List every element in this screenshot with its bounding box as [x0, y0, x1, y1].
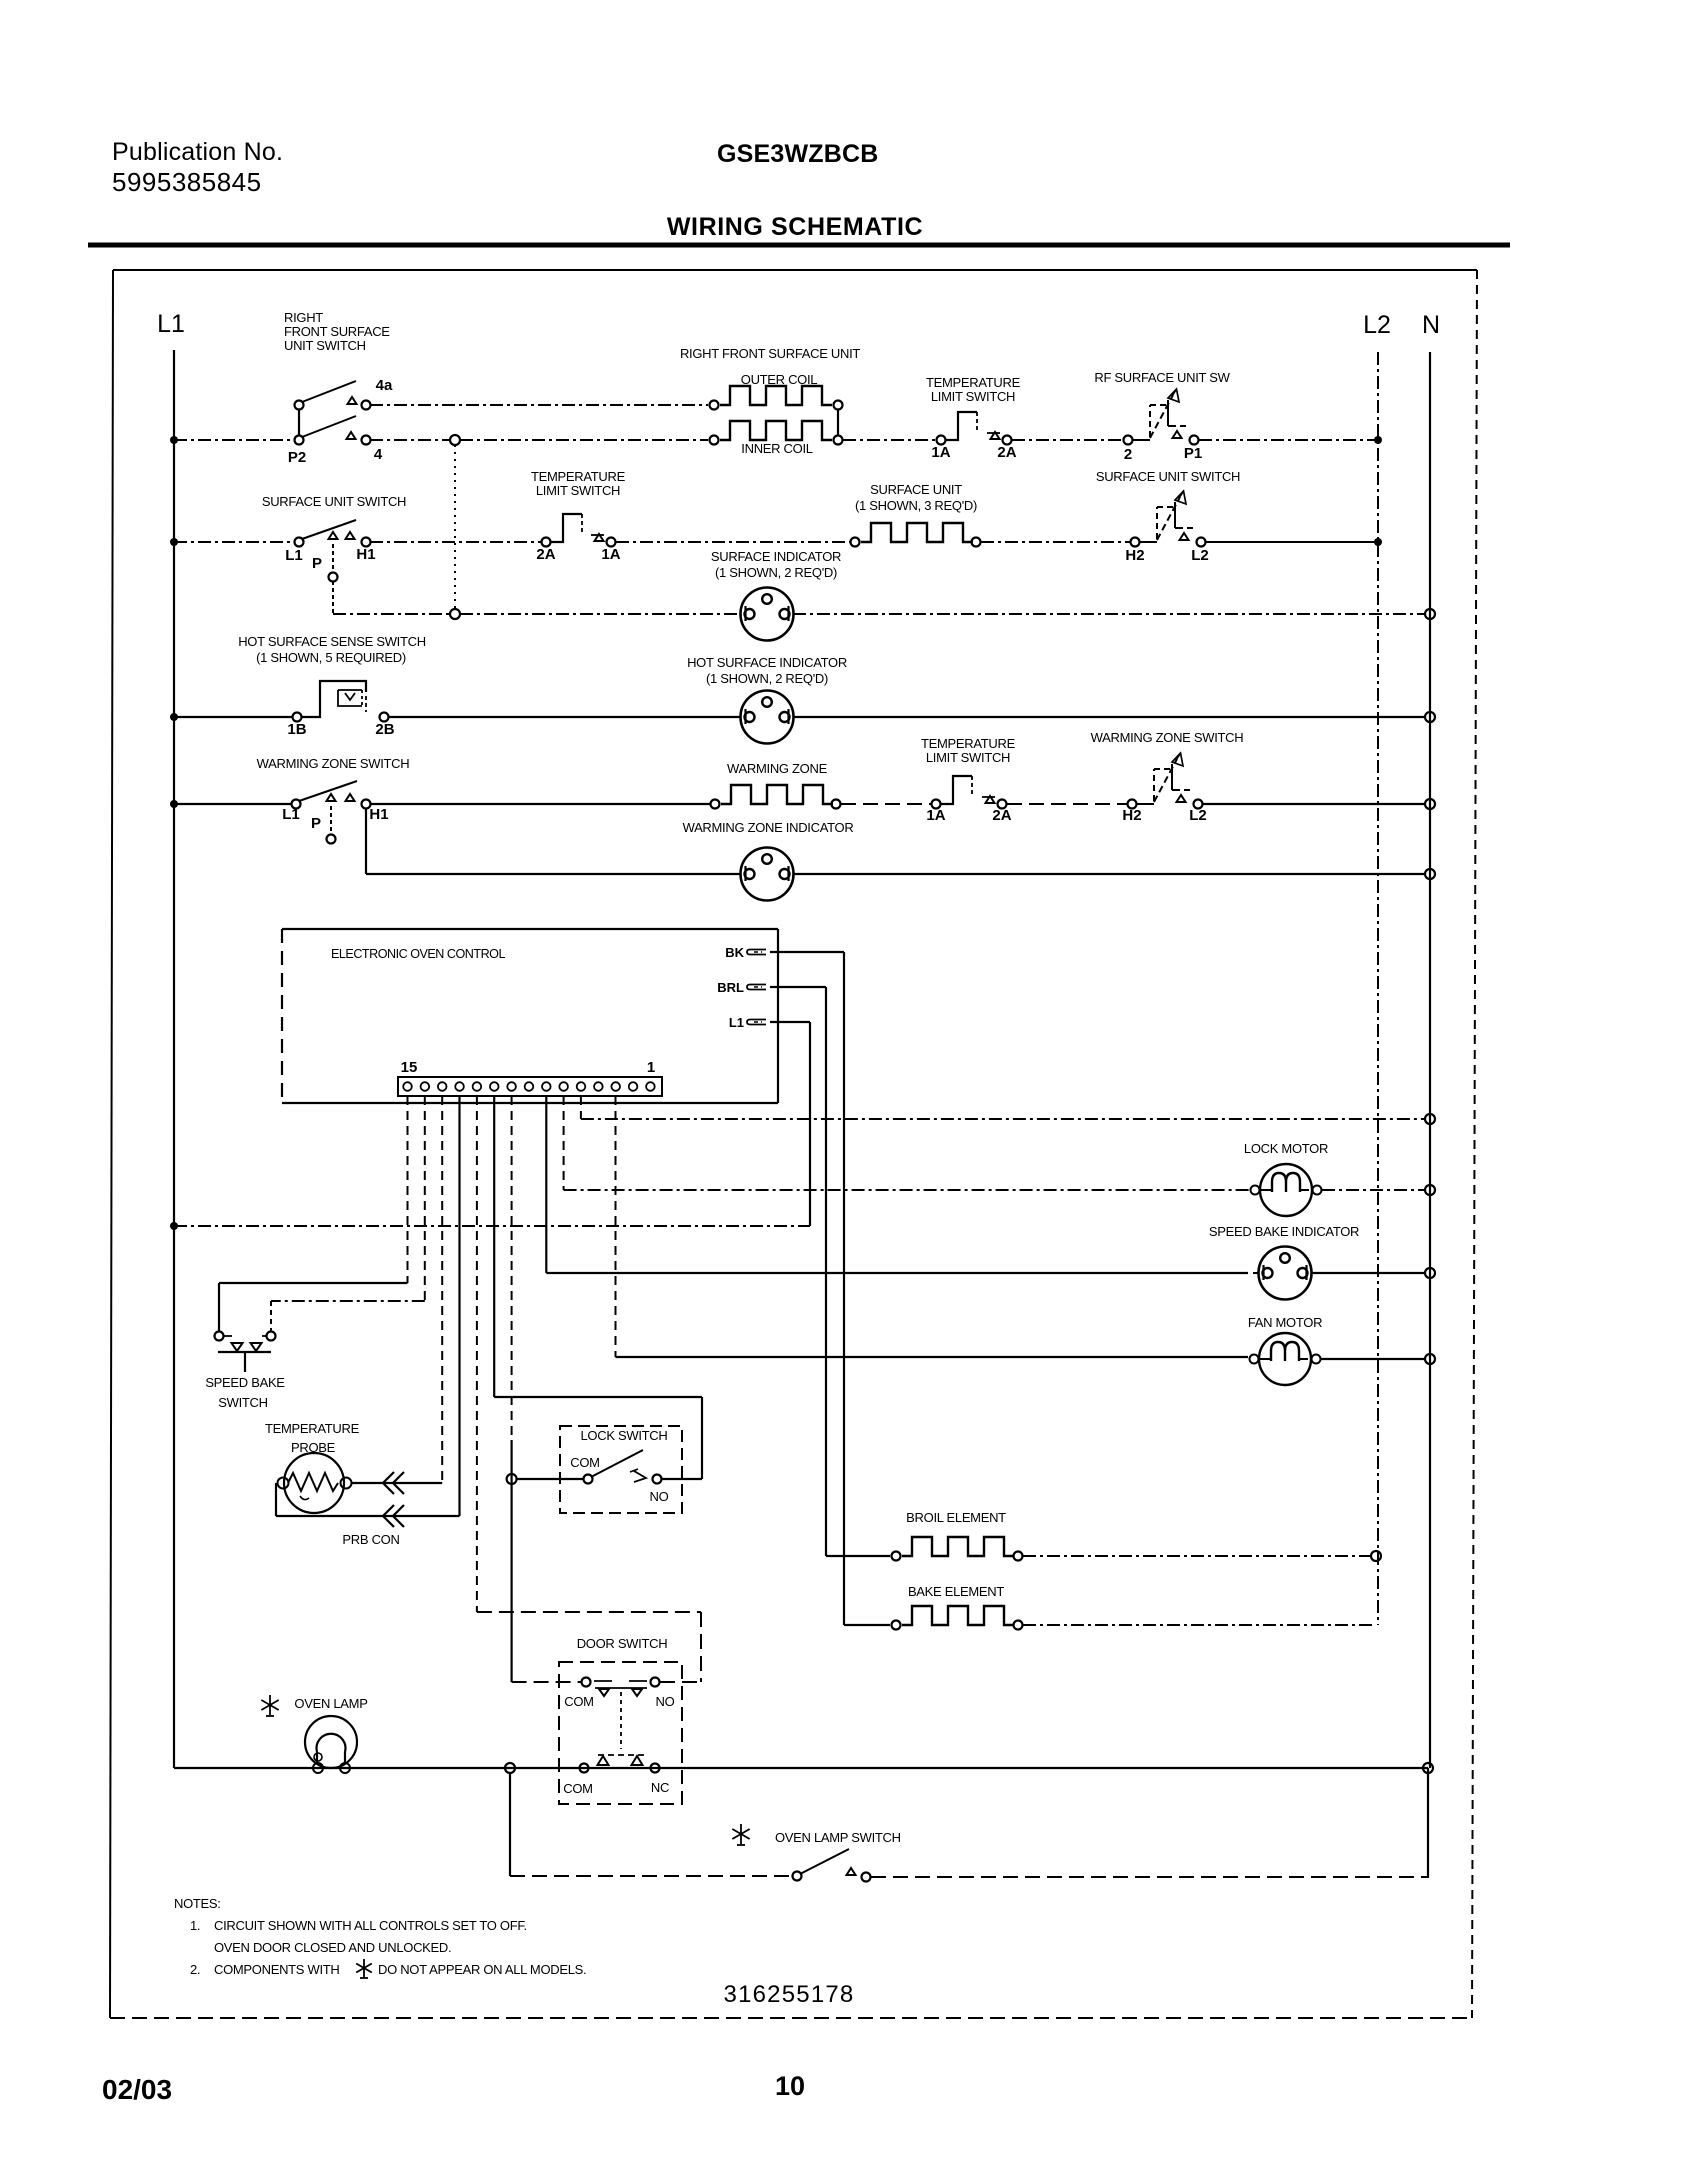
svg-text:RIGHT: RIGHT	[284, 310, 323, 325]
svg-text:H1: H1	[369, 806, 388, 823]
svg-text:PRB CON: PRB CON	[342, 1532, 399, 1547]
svg-text:1A: 1A	[931, 444, 950, 461]
svg-text:P1: P1	[1184, 445, 1202, 462]
svg-text:RF SURFACE UNIT SW: RF SURFACE UNIT SW	[1094, 370, 1230, 385]
svg-text:SURFACE UNIT SWITCH: SURFACE UNIT SWITCH	[1096, 469, 1240, 484]
svg-text:SWITCH: SWITCH	[218, 1395, 267, 1410]
svg-text:WARMING ZONE: WARMING ZONE	[727, 761, 828, 776]
svg-text:(1 SHOWN, 3 REQ'D): (1 SHOWN, 3 REQ'D)	[855, 498, 977, 513]
svg-text:LIMIT SWITCH: LIMIT SWITCH	[536, 483, 620, 498]
svg-text:WARMING ZONE SWITCH: WARMING ZONE SWITCH	[1091, 730, 1244, 745]
svg-text:OVEN DOOR CLOSED AND UNLOCKED.: OVEN DOOR CLOSED AND UNLOCKED.	[214, 1940, 451, 1955]
svg-text:HOT SURFACE INDICATOR: HOT SURFACE INDICATOR	[687, 655, 847, 670]
svg-text:OVEN LAMP: OVEN LAMP	[294, 1696, 367, 1711]
svg-text:1.: 1.	[190, 1918, 200, 1933]
svg-text:L1: L1	[729, 1015, 744, 1030]
svg-text:SURFACE UNIT SWITCH: SURFACE UNIT SWITCH	[262, 494, 406, 509]
svg-text:RIGHT FRONT SURFACE UNIT: RIGHT FRONT SURFACE UNIT	[680, 346, 860, 361]
svg-text:COMPONENTS WITH: COMPONENTS WITH	[214, 1962, 340, 1977]
svg-text:LIMIT SWITCH: LIMIT SWITCH	[931, 389, 1015, 404]
svg-text:DO NOT APPEAR ON ALL MODELS.: DO NOT APPEAR ON ALL MODELS.	[378, 1962, 586, 1977]
svg-text:10: 10	[775, 2071, 805, 2101]
svg-text:TEMPERATURE: TEMPERATURE	[926, 375, 1021, 390]
svg-text:UNIT SWITCH: UNIT SWITCH	[284, 338, 366, 353]
svg-text:2A: 2A	[536, 546, 555, 563]
svg-text:SURFACE UNIT: SURFACE UNIT	[870, 482, 962, 497]
svg-text:H2: H2	[1122, 807, 1141, 824]
svg-text:4: 4	[374, 446, 383, 463]
svg-text:P: P	[312, 555, 322, 572]
svg-text:NC: NC	[651, 1780, 669, 1795]
svg-text:2.: 2.	[190, 1962, 200, 1977]
svg-text:OUTER COIL: OUTER COIL	[741, 372, 818, 387]
svg-text:316255178: 316255178	[724, 1981, 855, 2008]
svg-text:H1: H1	[356, 546, 375, 563]
svg-text:COM: COM	[570, 1455, 599, 1470]
svg-text:L1: L1	[282, 806, 300, 823]
svg-text:BAKE ELEMENT: BAKE ELEMENT	[908, 1584, 1004, 1599]
svg-text:FRONT SURFACE: FRONT SURFACE	[284, 324, 390, 339]
svg-text:1B: 1B	[287, 721, 306, 738]
svg-text:SPEED BAKE INDICATOR: SPEED BAKE INDICATOR	[1209, 1224, 1359, 1239]
svg-text:WARMING ZONE SWITCH: WARMING ZONE SWITCH	[257, 756, 410, 771]
svg-text:BRL: BRL	[717, 980, 744, 995]
svg-text:COM: COM	[564, 1694, 593, 1709]
svg-text:LIMIT SWITCH: LIMIT SWITCH	[926, 750, 1010, 765]
svg-text:(1 SHOWN, 2 REQ'D): (1 SHOWN, 2 REQ'D)	[715, 565, 837, 580]
svg-text:TEMPERATURE: TEMPERATURE	[921, 736, 1016, 751]
svg-text:COM: COM	[563, 1781, 592, 1796]
svg-text:WARMING ZONE INDICATOR: WARMING ZONE INDICATOR	[683, 820, 854, 835]
svg-text:P2: P2	[288, 449, 306, 466]
svg-text:BK: BK	[725, 945, 744, 960]
svg-text:GSE3WZBCB: GSE3WZBCB	[717, 140, 879, 168]
svg-text:(1 SHOWN, 2 REQ'D): (1 SHOWN, 2 REQ'D)	[706, 671, 828, 686]
svg-text:TEMPERATURE: TEMPERATURE	[531, 469, 626, 484]
svg-text:DOOR SWITCH: DOOR SWITCH	[577, 1636, 668, 1651]
svg-text:L2: L2	[1189, 807, 1207, 824]
svg-text:TEMPERATURE: TEMPERATURE	[265, 1421, 360, 1436]
svg-text:L2: L2	[1191, 547, 1209, 564]
svg-text:LOCK SWITCH: LOCK SWITCH	[581, 1428, 668, 1443]
svg-text:L1: L1	[157, 310, 185, 338]
svg-text:2A: 2A	[992, 807, 1011, 824]
svg-text:1A: 1A	[601, 546, 620, 563]
svg-text:CIRCUIT SHOWN WITH ALL CONTROL: CIRCUIT SHOWN WITH ALL CONTROLS SET TO O…	[214, 1918, 527, 1933]
svg-text:NO: NO	[650, 1489, 669, 1504]
svg-text:NO: NO	[656, 1694, 675, 1709]
svg-text:2: 2	[1124, 446, 1132, 463]
svg-text:Publication No.: Publication No.	[112, 138, 283, 166]
svg-text:15: 15	[401, 1059, 418, 1076]
svg-text:ELECTRONIC OVEN CONTROL: ELECTRONIC OVEN CONTROL	[331, 947, 505, 961]
svg-text:NOTES:: NOTES:	[174, 1896, 221, 1911]
svg-text:BROIL ELEMENT: BROIL ELEMENT	[906, 1510, 1006, 1525]
svg-text:HOT SURFACE SENSE SWITCH: HOT SURFACE SENSE SWITCH	[238, 634, 426, 649]
svg-text:H2: H2	[1125, 547, 1144, 564]
svg-text:5995385845: 5995385845	[112, 167, 262, 197]
svg-text:P: P	[311, 815, 321, 832]
svg-text:SURFACE INDICATOR: SURFACE INDICATOR	[711, 549, 841, 564]
svg-text:N: N	[1422, 311, 1440, 339]
svg-text:WIRING SCHEMATIC: WIRING SCHEMATIC	[667, 213, 923, 241]
svg-text:4a: 4a	[376, 377, 393, 394]
svg-text:1A: 1A	[926, 807, 945, 824]
svg-text:2A: 2A	[997, 444, 1016, 461]
svg-text:L2: L2	[1363, 311, 1391, 339]
svg-text:L1: L1	[285, 547, 303, 564]
svg-text:INNER COIL: INNER COIL	[741, 441, 812, 456]
svg-text:LOCK MOTOR: LOCK MOTOR	[1244, 1141, 1328, 1156]
svg-text:1: 1	[647, 1059, 655, 1076]
svg-text:FAN MOTOR: FAN MOTOR	[1248, 1315, 1322, 1330]
svg-text:02/03: 02/03	[102, 2074, 172, 2105]
svg-text:SPEED BAKE: SPEED BAKE	[205, 1375, 285, 1390]
svg-text:OVEN LAMP SWITCH: OVEN LAMP SWITCH	[775, 1830, 901, 1845]
svg-text:2B: 2B	[375, 721, 394, 738]
svg-text:(1 SHOWN, 5 REQUIRED): (1 SHOWN, 5 REQUIRED)	[256, 650, 406, 665]
